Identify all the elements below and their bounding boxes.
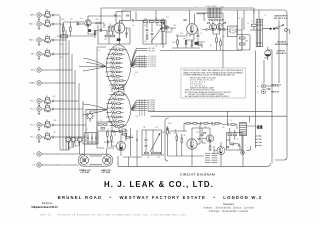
- svg-text:250K: 250K: [168, 123, 172, 125]
- svg-text:1M: 1M: [53, 132, 56, 134]
- svg-text:47K: 47K: [46, 35, 49, 37]
- wire J2 out: [54, 23, 57, 25]
- wire J1 gnd: [38, 17, 40, 20]
- network diagonal pot U1: [151, 27, 162, 42]
- wire J10 lead: [41, 136, 46, 138]
- wire T2 top: [258, 10, 260, 19]
- wire VR1 wiring: [163, 18, 168, 48]
- resistor S3 row 3: [106, 103, 123, 105]
- wire J9 lead: [41, 124, 46, 126]
- svg-text:180: 180: [231, 145, 234, 147]
- wire balloon2 bottom: [112, 128, 126, 132]
- svg-text:AUX: AUX: [31, 69, 36, 72]
- resistor R90 below balloon2: [111, 131, 123, 133]
- svg-text:47K: 47K: [46, 104, 49, 106]
- capacitor C3a: [53, 39, 54, 41]
- svg-text:CIRCUIT DIAGRAM: CIRCUIT DIAGRAM: [180, 173, 215, 177]
- resistor R71: [104, 124, 108, 126]
- svg-text:47K: 47K: [196, 132, 199, 134]
- svg-text:S2 3 FRONT: S2 3 FRONT: [148, 60, 156, 62]
- rotary switch S4: [65, 136, 71, 142]
- resistor R75: [123, 134, 127, 136]
- wire V6 grid wire: [177, 130, 187, 132]
- resistor R43: [198, 44, 202, 46]
- resistor R21: [108, 27, 110, 31]
- capacitor C80: [175, 130, 176, 133]
- svg-text:LIFT FLAT: LIFT FLAT: [81, 171, 91, 174]
- resistor R39: [162, 27, 166, 29]
- svg-text:1K: 1K: [107, 129, 109, 131]
- wire inter-balloon links: [97, 47, 124, 143]
- resistor R73: [107, 132, 109, 136]
- svg-text:180: 180: [190, 46, 193, 48]
- wire V2 screen up: [121, 12, 123, 24]
- svg-text:0.05: 0.05: [174, 133, 177, 135]
- svg-text:56K: 56K: [112, 33, 115, 35]
- wire V3 connections: [186, 10, 205, 44]
- wire HT rail top: [116, 10, 287, 20]
- wire terminal feed: [246, 50, 257, 150]
- capacitor C74: [137, 139, 138, 142]
- capacitor C84: [239, 144, 240, 147]
- resistor S2 row 4: [106, 62, 123, 64]
- wire V2 grid wire: [96, 30, 107, 32]
- capacitor C75: [145, 140, 148, 141]
- diagonal in filter block: [150, 133, 160, 152]
- resistor R70: [99, 124, 103, 126]
- wire J6 out: [46, 82, 58, 84]
- svg-text:47K: 47K: [155, 46, 158, 48]
- svg-text:330K: 330K: [124, 130, 128, 132]
- svg-text:REF. 30 PRINTED IN ENGLAND: REF. 30 PRINTED IN ENGLAND BY WILLIAM CL…: [40, 214, 187, 217]
- capacitor C82: [212, 122, 213, 125]
- capacitor C13: [78, 23, 79, 26]
- tone filter block U1: [143, 20, 166, 44]
- cathode blob V5: [119, 147, 122, 150]
- rotary switch S6: [77, 136, 83, 142]
- svg-text:16: 16: [247, 23, 249, 25]
- resistor zigzag J2: [45, 25, 51, 27]
- resistor R23: [105, 35, 109, 37]
- svg-text:470K: 470K: [172, 42, 176, 44]
- wire J1 net: [45, 12, 53, 17]
- svg-text:A: A: [257, 85, 259, 88]
- resistor zigzag J1: [45, 16, 51, 18]
- svg-text:5K: 5K: [238, 18, 240, 20]
- wire V4 wiring: [213, 21, 220, 38]
- capacitor C50: [206, 28, 207, 31]
- wire J10 net: [45, 134, 53, 139]
- svg-text:22K 250: 22K 250: [111, 106, 117, 108]
- wire V2 bottom: [98, 25, 109, 44]
- capacitor C10a: [53, 136, 54, 138]
- resistor R79: [157, 152, 161, 154]
- wire balloon2 right fan: [131, 100, 137, 110]
- svg-text:100: 100: [222, 127, 225, 129]
- svg-text:1M: 1M: [183, 135, 186, 137]
- resistor R10a: [46, 134, 50, 136]
- resistor S3 row 7: [108, 120, 125, 122]
- wire bus to balloon1 fan: [79, 58, 106, 71]
- svg-text:50: 50: [210, 45, 212, 47]
- svg-text:Foreign : Sinusoidal, London: Foreign : Sinusoidal, London: [209, 210, 249, 213]
- svg-text:E: E: [33, 154, 35, 156]
- input jack J8: [30, 107, 41, 111]
- resistor R9a: [46, 122, 50, 124]
- svg-text:4.7K 100: 4.7K 100: [113, 47, 119, 49]
- svg-text:TAPE OUT: TAPE OUT: [271, 84, 282, 87]
- wire bottom verticals: [97, 143, 137, 166]
- terminal tick 4: [255, 145, 262, 146]
- note box N1: [181, 68, 246, 98]
- svg-text:V4: V4: [207, 21, 211, 25]
- input jack J5: [31, 68, 42, 72]
- svg-text:22K 250: 22K 250: [114, 93, 120, 95]
- svg-text:4.7K 100: 4.7K 100: [110, 61, 116, 63]
- resistor zigzag J4: [45, 55, 51, 57]
- svg-text:8: 8: [205, 19, 206, 21]
- valve V3: [187, 24, 198, 35]
- resistor S3 row 8: [109, 124, 126, 126]
- wire psu drop wires: [264, 13, 287, 163]
- capacitor C73: [108, 141, 109, 144]
- svg-text:0.01: 0.01: [131, 136, 134, 138]
- wire R50 wiring: [202, 30, 228, 51]
- resistor R13: [63, 27, 65, 31]
- resistor R34: [161, 21, 165, 23]
- wire J4 net: [45, 51, 53, 56]
- wire ch2 bottom wires: [167, 136, 243, 167]
- resistor R76: [126, 137, 130, 139]
- svg-text:470K: 470K: [212, 125, 216, 127]
- wire J8 lead: [41, 108, 46, 110]
- switch S1 mains: [270, 25, 288, 32]
- resistor R85: [215, 123, 219, 125]
- svg-text:47K: 47K: [46, 132, 49, 134]
- resistor R77: [145, 152, 149, 154]
- svg-text:47K: 47K: [155, 19, 158, 21]
- wire R62 wiring: [250, 10, 262, 30]
- svg-text:16: 16: [251, 21, 253, 23]
- capacitor C2a: [53, 23, 54, 25]
- resistor R15: [94, 31, 96, 35]
- svg-text:47K: 47K: [70, 19, 73, 21]
- valve V5: [116, 141, 125, 150]
- svg-text:8 OHM: 8 OHM: [230, 32, 235, 34]
- svg-text:0.02: 0.02: [144, 41, 147, 43]
- wire J1 lead: [41, 14, 46, 16]
- svg-text:GRAM: GRAM: [29, 82, 35, 85]
- wire J7 net: [45, 98, 53, 103]
- tag strip row 2: [205, 155, 218, 157]
- resistor S3 row 4: [106, 107, 123, 109]
- capacitor C40: [177, 35, 178, 38]
- svg-text:250K: 250K: [158, 25, 162, 27]
- wire cap bank: [88, 133, 96, 144]
- capacitor C14 electrolytic: [88, 29, 91, 32]
- resistor R84: [204, 123, 208, 125]
- svg-text:0.5: 0.5: [114, 135, 116, 137]
- wire J5 lead: [41, 69, 46, 71]
- wire J2 lead: [41, 23, 46, 25]
- wire neon wiring: [90, 111, 97, 122]
- valve V1: [85, 20, 91, 26]
- wire J6 lead: [41, 82, 46, 84]
- svg-text:68K: 68K: [60, 44, 63, 46]
- valve V4: [210, 24, 217, 31]
- capacitor C51: [224, 28, 225, 31]
- wire V6 wiring: [191, 128, 193, 156]
- svg-text:0.02: 0.02: [155, 127, 158, 129]
- wire J11 lead: [41, 153, 46, 155]
- svg-text:47K: 47K: [183, 39, 186, 41]
- svg-text:50: 50: [86, 129, 88, 131]
- wire ch2 wiring a: [177, 133, 182, 156]
- wire V2 right: [120, 20, 144, 44]
- contact grid 2: [137, 100, 148, 110]
- resistor R80: [176, 136, 178, 140]
- resistor S3 row 2: [108, 98, 125, 100]
- wire cyl wiring: [66, 142, 114, 156]
- svg-text:0.1: 0.1: [104, 25, 106, 27]
- capacitor C31: [151, 34, 154, 35]
- wire J8 net: [45, 106, 53, 111]
- potentiometer VR2: [167, 128, 171, 134]
- svg-text:8: 8: [128, 30, 129, 32]
- capacitor C4a: [53, 53, 54, 55]
- svg-text:S2 1 FRONT: S2 1 FRONT: [148, 56, 156, 58]
- capacitor C30: [146, 30, 149, 31]
- resistor S2 row 5: [106, 66, 123, 68]
- resistor R60: [239, 37, 245, 39]
- mains transformer T2: [256, 19, 262, 47]
- resistor R33: [146, 35, 148, 39]
- resistor S2 row 2: [107, 53, 124, 55]
- wire ch2 wiring b: [202, 128, 206, 143]
- wire ch2 out wiring: [227, 128, 241, 150]
- capacitor C81: [201, 122, 202, 125]
- resistor R87: [228, 134, 232, 136]
- filter block box: [142, 130, 162, 155]
- svg-text:22K 250: 22K 250: [112, 97, 118, 99]
- wire tone wiring: [147, 22, 162, 44]
- wire J10 gnd: [38, 139, 40, 142]
- wire J11 out: [46, 153, 58, 155]
- wire J4 lead: [41, 53, 46, 55]
- svg-text:1M: 1M: [109, 24, 112, 26]
- wire J2 net: [45, 21, 53, 26]
- svg-text:V6: V6: [197, 137, 201, 141]
- svg-text:RAD 2: RAD 2: [29, 39, 35, 42]
- svg-text:22K 250: 22K 250: [111, 101, 117, 103]
- resistor R50: [216, 38, 218, 42]
- resistor R41: [185, 41, 187, 45]
- input jack J7: [30, 99, 41, 103]
- wire psu box wiring: [242, 35, 248, 51]
- svg-text:100K: 100K: [61, 19, 65, 21]
- resistor R30: [144, 21, 148, 23]
- svg-text:22K 250: 22K 250: [114, 123, 120, 125]
- svg-text:T1: T1: [264, 15, 266, 17]
- svg-text:4.7K 100: 4.7K 100: [112, 52, 118, 54]
- resistor R17: [61, 35, 68, 38]
- wire J10 out: [54, 136, 57, 138]
- svg-text:S2 6 FRONT: S2 6 FRONT: [148, 66, 156, 68]
- svg-text:PU 4: PU 4: [30, 137, 34, 139]
- svg-text:22K 250: 22K 250: [112, 119, 118, 121]
- wire J9 gnd: [38, 127, 40, 130]
- terminal tick 3: [255, 142, 262, 143]
- capacitor C20: [101, 29, 102, 32]
- svg-text:S2 4 FRONT: S2 4 FRONT: [148, 62, 156, 64]
- capacitor C71: [92, 137, 93, 140]
- resistor R7a: [46, 98, 50, 100]
- wire psu left verticals: [238, 10, 245, 34]
- svg-text:0.05: 0.05: [80, 18, 83, 20]
- wire V2 cathode: [109, 33, 130, 44]
- capacitor C83: [201, 135, 204, 136]
- svg-text:130: 130: [222, 36, 225, 38]
- svg-text:4.7K 100: 4.7K 100: [113, 83, 119, 85]
- outbox rows: [229, 29, 237, 31]
- capacitor C76: [145, 146, 148, 147]
- svg-text:47K: 47K: [144, 19, 147, 21]
- wire J1 out: [54, 14, 57, 16]
- wire J3 gnd: [38, 42, 40, 45]
- svg-text:100K: 100K: [173, 25, 177, 27]
- svg-text:220K: 220K: [95, 19, 99, 21]
- wire J5 out: [46, 69, 58, 71]
- fuse F1 can: [265, 50, 271, 56]
- input jack J9: [30, 123, 41, 127]
- wire V3 out wiring: [196, 13, 223, 42]
- svg-text:RAD TAPE: RAD TAPE: [148, 47, 155, 50]
- svg-text:22K 250: 22K 250: [111, 115, 117, 117]
- input jack J10: [30, 135, 41, 139]
- chassis cylinder ballast: [78, 154, 113, 166]
- resistor R86: [209, 146, 211, 150]
- wire J4 gnd: [38, 56, 40, 59]
- svg-text:RAD 1: RAD 1: [29, 23, 35, 26]
- svg-text:0.05: 0.05: [60, 57, 63, 59]
- wire splitter bottom: [172, 45, 202, 48]
- neon lamp N2: [86, 112, 95, 121]
- wire J3 net: [45, 37, 53, 42]
- svg-text:4.7K 100: 4.7K 100: [113, 78, 119, 80]
- svg-text:0.02: 0.02: [204, 127, 207, 129]
- capacitor C70: [88, 137, 89, 140]
- svg-text:V2: V2: [126, 13, 130, 17]
- resistor R82: [186, 123, 190, 125]
- svg-text:25: 25: [100, 120, 102, 122]
- svg-text:4.7K 100: 4.7K 100: [110, 65, 116, 67]
- resistor R89: [230, 143, 234, 145]
- capacitor C72: [96, 137, 97, 140]
- jack A2: [257, 90, 265, 94]
- svg-text:0.05: 0.05: [180, 33, 183, 35]
- capacitor bank box: [85, 133, 98, 144]
- valve V8: [217, 147, 225, 155]
- valve V7: [206, 135, 213, 142]
- contact row 1u-2: [137, 49, 155, 52]
- capacitor C23: [133, 19, 134, 22]
- resistor R88: [233, 134, 237, 136]
- resistor R81: [181, 138, 183, 142]
- resistor R32: [155, 21, 159, 23]
- resistor R72: [101, 128, 105, 130]
- input jack J4: [31, 52, 41, 56]
- wire R13 feed: [63, 22, 84, 36]
- psu box: [237, 35, 250, 51]
- output transformer T3: [240, 123, 247, 136]
- wire fuse wiring: [267, 47, 269, 60]
- resistor R31: [149, 21, 153, 23]
- svg-text:H. J. LEAK & CO., LTD.: H. J. LEAK & CO., LTD.: [104, 180, 214, 189]
- wire filter wiring: [146, 130, 153, 152]
- svg-text:390: 390: [147, 157, 150, 159]
- capacitor C8a: [53, 108, 54, 110]
- svg-text:47K: 47K: [196, 34, 199, 36]
- resistor R8a: [46, 106, 50, 108]
- terminal tick 2: [255, 138, 262, 139]
- svg-text:4.7K 100: 4.7K 100: [110, 70, 116, 72]
- tag strip row 5: [205, 161, 218, 163]
- svg-text:47K: 47K: [46, 49, 49, 51]
- resistor R84b: [231, 124, 235, 126]
- resistor R14: [70, 27, 72, 31]
- svg-text:22K 250: 22K 250: [111, 110, 117, 112]
- resistor S2 row 9: [109, 84, 126, 86]
- wire R39 wiring: [166, 28, 176, 31]
- resistor S2 row 1: [109, 49, 126, 51]
- wire bus taps: [57, 15, 86, 165]
- wire J3 lead: [41, 39, 46, 41]
- wire R40 wiring: [176, 38, 178, 48]
- resistor R78: [152, 152, 156, 154]
- svg-text:TAPE IN: TAPE IN: [271, 91, 279, 94]
- svg-text:PU 1: PU 1: [30, 101, 34, 103]
- input jack J12: [32, 163, 41, 167]
- wire J9 net: [45, 122, 53, 127]
- resistor R51: [220, 41, 222, 45]
- svg-text:25: 25: [125, 36, 127, 38]
- wire bus-loom vertical runs: [60, 16, 86, 150]
- wire V8 wiring: [214, 142, 221, 158]
- resistor R22: [112, 27, 114, 31]
- tag strip row 4: [205, 159, 218, 161]
- OPT terminal strip: [209, 19, 224, 21]
- capacitor C21: [125, 33, 128, 34]
- input jack J6: [29, 81, 41, 85]
- svg-text:CH: CH: [32, 165, 35, 167]
- wire V7 wiring: [203, 128, 210, 146]
- resistor R83: [193, 123, 197, 125]
- capacitor C85: [228, 123, 229, 126]
- wire J7 lead: [41, 100, 46, 102]
- network box upper: [97, 122, 112, 131]
- resistor R2a: [46, 21, 50, 23]
- wire NFB long: [101, 8, 254, 32]
- svg-text:LIFT FLAT: LIFT FLAT: [102, 171, 112, 174]
- grid2 cross verticals: [140, 99, 149, 116]
- resistor R1a: [46, 12, 50, 14]
- wire bus to selector: [60, 142, 96, 150]
- resistor zigzag J8: [45, 110, 51, 112]
- resistor zigzag J10: [45, 138, 51, 140]
- wire bus to balloon2 fan: [83, 104, 107, 115]
- selector switch loom S2 balloon: [106, 45, 131, 89]
- potentiometer VR1 volume: [162, 20, 168, 32]
